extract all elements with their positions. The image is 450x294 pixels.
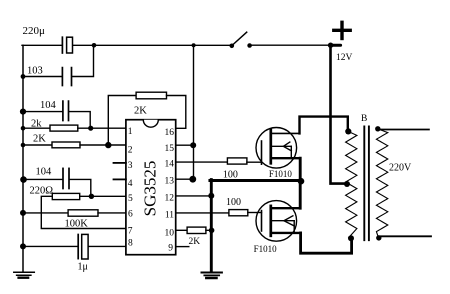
- switch S1 right contact: [247, 43, 252, 48]
- wire top rail left segment: [22, 44, 62, 46]
- wire 12V supply down: [331, 45, 348, 183]
- wire 103 to top rail: [72, 45, 93, 76]
- node transformer primary top terminal: [345, 128, 351, 134]
- svg-text:6: 6: [128, 210, 133, 220]
- transistor Q2 channel bar: [269, 206, 272, 236]
- wire pin14 to gate resistor: [176, 161, 228, 163]
- node 2k/104 junction: [88, 126, 93, 131]
- svg-text:5: 5: [128, 194, 133, 204]
- node secondary top terminal: [375, 126, 380, 131]
- svg-text:100: 100: [223, 170, 238, 181]
- wire 1u to IC pin8: [89, 245, 126, 247]
- pin 3 stub: [114, 162, 126, 164]
- svg-text:10: 10: [165, 229, 175, 239]
- node transformer center tap: [344, 181, 350, 187]
- transistor Q1 F1010 circle: [256, 128, 297, 169]
- wire pin10: [176, 229, 187, 231]
- capacitor C5 1u left plate: [77, 235, 79, 259]
- wire Q2 drain up to node: [299, 181, 302, 208]
- svg-text:1μ: 1μ: [78, 262, 88, 273]
- transistor Q2 gate bar: [261, 211, 263, 231]
- resistor R5 100K: [68, 210, 98, 216]
- node left bus at 103: [21, 74, 26, 79]
- svg-text:7: 7: [128, 227, 133, 237]
- capacitor C3 104: [62, 101, 64, 120]
- node transformer bottom terminal: [348, 235, 354, 241]
- svg-text:4: 4: [128, 179, 133, 189]
- svg-text:B: B: [361, 114, 367, 124]
- wire Q2 source to transformer bottom: [301, 233, 352, 253]
- wire Q1 source down: [299, 158, 302, 181]
- resistor R8 2K shutdown: [187, 227, 206, 233]
- op-amp U1 SG3525 body: [126, 120, 176, 255]
- pin 9 stub: [176, 246, 189, 248]
- svg-text:100K: 100K: [65, 219, 89, 230]
- wire 100K to IC pin6: [98, 212, 126, 214]
- node pin2 feedback junction: [105, 142, 111, 148]
- transistor Q2 body lead and arrow: [271, 220, 294, 222]
- wire 220ohm left leg to pin7 row: [41, 196, 126, 228]
- resistor R6 100 upper: [227, 158, 247, 164]
- wire top rail right segment: [250, 44, 331, 46]
- wire pin13: [176, 178, 193, 180]
- wire 2k to IC pin1: [78, 127, 126, 129]
- wire left bus vertical: [22, 45, 24, 271]
- svg-text:220V: 220V: [389, 163, 412, 174]
- node 2K ground: [209, 228, 215, 234]
- transistor Q1 channel bar: [269, 130, 272, 163]
- wire secondary top output: [378, 129, 429, 131]
- wire gate upper: [247, 161, 262, 163]
- switch S1 left contact: [230, 44, 235, 49]
- node left bus at 1u: [20, 243, 26, 249]
- resistor R1 2k: [50, 125, 78, 131]
- battery positive terminal stub: [331, 44, 341, 47]
- resistor R7 100 lower: [229, 210, 248, 216]
- wire 2K to IC pin2: [80, 144, 126, 146]
- transistor Q1 drain lead: [271, 132, 300, 134]
- wire pin12 to ground bus: [176, 195, 211, 197]
- node top-rail junction A: [92, 43, 97, 48]
- svg-text:2K: 2K: [33, 134, 46, 145]
- wire pin15 to VCC line: [176, 144, 194, 146]
- ground symbol left: [14, 271, 35, 273]
- svg-text:9: 9: [168, 244, 173, 254]
- wire pin11 to gate resistor lower: [176, 212, 229, 214]
- op-amp U1 notch: [143, 120, 158, 128]
- capacitor C4 104: [62, 168, 64, 188]
- svg-text:100: 100: [226, 197, 241, 208]
- resistor R3 2K feedback: [136, 92, 166, 99]
- resistor R2 2K: [52, 142, 80, 148]
- svg-text:220Ω: 220Ω: [30, 186, 54, 197]
- wire 104b down to 220ohm row: [70, 179, 91, 196]
- capacitor C1 220u box plate: [67, 37, 73, 53]
- node source/drain midpoint: [298, 178, 305, 185]
- capacitor C1 220u left plate: [61, 37, 63, 53]
- wire ground bus vertical: [210, 180, 213, 272]
- wire feedback to pin16: [167, 96, 186, 129]
- node left bus at 104b: [20, 176, 27, 183]
- transistor Q2 drain lead: [271, 207, 300, 209]
- svg-text:16: 16: [165, 128, 175, 138]
- transistor Q2 F1010 circle: [256, 201, 297, 242]
- svg-text:2K: 2K: [189, 237, 201, 247]
- node top-rail junction B: [192, 43, 196, 47]
- pin 4 stub: [114, 178, 126, 180]
- wire 2K row left: [23, 144, 52, 146]
- switch S1 lever: [233, 32, 247, 45]
- pin number labels: [128, 127, 175, 254]
- svg-text:15: 15: [165, 144, 175, 154]
- svg-text:103: 103: [27, 66, 43, 77]
- svg-text:2k: 2k: [31, 119, 42, 130]
- wire 104 row: [23, 111, 62, 113]
- svg-text:12: 12: [165, 194, 175, 204]
- wire Q1 drain up to transformer: [300, 117, 348, 134]
- wire 2k row left: [23, 127, 50, 129]
- ground symbol right: [202, 272, 222, 274]
- svg-text:F1010: F1010: [254, 244, 278, 254]
- node left bus at 100K: [20, 210, 26, 216]
- svg-text:12V: 12V: [336, 53, 353, 63]
- transistor Q1 gate bar: [261, 141, 263, 164]
- svg-text:2K: 2K: [134, 106, 147, 117]
- wire gate lower: [248, 212, 262, 214]
- svg-text:8: 8: [128, 239, 133, 249]
- svg-text:3: 3: [128, 161, 133, 171]
- svg-text:11: 11: [165, 211, 174, 221]
- svg-text:1: 1: [128, 127, 133, 137]
- wire secondary bottom output: [379, 235, 431, 237]
- svg-text:13: 13: [165, 177, 175, 187]
- svg-text:220μ: 220μ: [23, 25, 46, 37]
- svg-text:14: 14: [165, 160, 175, 170]
- node 12V supply junction: [328, 43, 333, 48]
- node pin13 VCC end: [189, 176, 196, 183]
- svg-text:104: 104: [40, 100, 57, 111]
- node left bus at 104: [20, 109, 26, 115]
- wire 100K row: [23, 212, 68, 214]
- wire 220ohm to IC pin5: [80, 195, 126, 197]
- node 220ohm/104b junction: [89, 194, 94, 199]
- node secondary bottom terminal: [376, 235, 381, 240]
- svg-text:SG3525: SG3525: [140, 161, 159, 217]
- wire feedback vertical: [108, 96, 136, 146]
- wire VCC vertical: [193, 45, 195, 179]
- transformer T1 primary winding: [346, 132, 357, 238]
- node left bus at 2K: [21, 143, 26, 148]
- node left bus at 2k: [21, 126, 26, 131]
- wire ground bus horizontal: [210, 179, 302, 182]
- wire top rail mid segment: [73, 44, 232, 46]
- svg-text:104: 104: [36, 167, 53, 178]
- svg-text:2: 2: [128, 145, 133, 155]
- transistor Q2 source lead: [271, 232, 301, 234]
- wire 104 second row: [23, 178, 62, 180]
- transformer T1 core: [363, 127, 365, 241]
- wire 103 row: [23, 76, 62, 78]
- plus symbol: [334, 29, 350, 32]
- capacitor C2 103: [61, 68, 63, 86]
- wire 1u row: [23, 245, 77, 247]
- transistor Q1 source lead: [271, 157, 300, 159]
- wire 2K to ground bus: [206, 229, 211, 231]
- node pin15 VCC: [190, 142, 196, 148]
- transformer T1 secondary winding: [376, 129, 387, 238]
- node pin12 ground: [208, 193, 214, 199]
- wire 104 down to 2k row: [69, 112, 90, 129]
- resistor R4 220ohm: [52, 193, 79, 199]
- capacitor C5 1u box plate: [82, 234, 88, 259]
- transistor Q1 body lead and arrow: [271, 145, 291, 147]
- svg-text:F1010: F1010: [269, 169, 293, 179]
